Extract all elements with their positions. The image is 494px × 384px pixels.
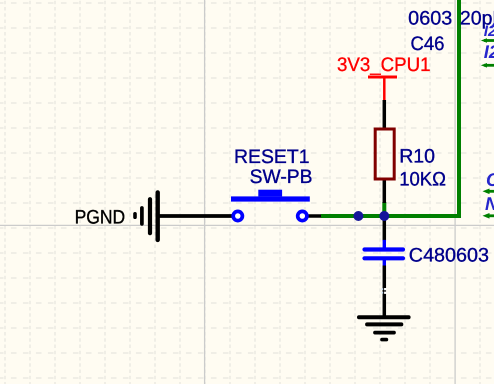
svg-text:0603: 0603 bbox=[408, 8, 452, 30]
svg-text:I2C: I2C bbox=[484, 23, 494, 40]
svg-text:I2C: I2C bbox=[484, 41, 494, 62]
svg-text:C480603: C480603 bbox=[409, 245, 489, 267]
svg-text:RESET1: RESET1 bbox=[234, 146, 310, 168]
svg-text:C46: C46 bbox=[411, 33, 445, 55]
svg-text:10KΩ: 10KΩ bbox=[399, 169, 446, 191]
svg-text:CP: CP bbox=[486, 169, 494, 190]
svg-text:SW-PB: SW-PB bbox=[250, 166, 313, 188]
svg-text:R10: R10 bbox=[399, 146, 435, 168]
svg-text:3V3_CPU1: 3V3_CPU1 bbox=[337, 54, 431, 76]
svg-text:NR: NR bbox=[485, 193, 494, 214]
svg-text:PGND: PGND bbox=[75, 206, 126, 228]
